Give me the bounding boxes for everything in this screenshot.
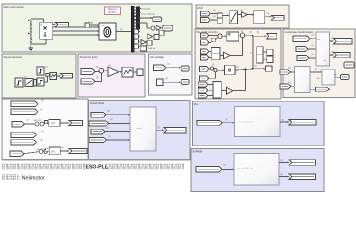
svg-text:5e-06 s.: 5e-06 s. (109, 11, 118, 14)
svg-text:dq: dq (324, 60, 326, 62)
svg-text:[1]: [1] (40, 109, 43, 111)
svg-text:SVPWM: SVPWM (193, 151, 202, 154)
svg-text:Motor and inverter: Motor and inverter (4, 6, 24, 9)
svg-text:wm(rad/s): wm(rad/s) (141, 8, 151, 11)
svg-text:<m>: <m> (101, 24, 106, 27)
svg-text:Coordinate transformation: Coordinate transformation (285, 31, 315, 34)
svg-text:wm_real theta_est: wm_real theta_est (238, 121, 255, 124)
svg-text:theta_real(rad): theta_real(rad) (141, 12, 155, 15)
svg-text:abc: abc (317, 39, 320, 41)
svg-text:[1]: [1] (267, 13, 270, 15)
svg-text:Te(N*m): Te(N*m) (148, 48, 156, 50)
svg-text:Speed reference: Speed reference (4, 56, 23, 59)
svg-text:ESO: ESO (198, 7, 203, 10)
svg-text:model: model (136, 128, 142, 130)
svg-text:wm_ref PWM_out: wm_ref PWM_out (237, 167, 253, 170)
svg-text:PI: PI (52, 122, 55, 126)
svg-text:ESO-PLL: ESO-PLL (86, 165, 109, 171)
svg-text:Actual Theta: Actual Theta (90, 102, 105, 105)
svg-text:(s): (s) (251, 53, 254, 55)
svg-text:[1]: [1] (241, 31, 244, 33)
svg-text:PLL: PLL (194, 103, 199, 106)
svg-text:Actual wm (rpm): Actual wm (rpm) (80, 56, 98, 59)
svg-text:Udc wattage: Udc wattage (150, 56, 165, 59)
svg-text:C4D 4C1: C4D 4C1 (33, 120, 42, 122)
svg-text:: Neilmotor: : Neilmotor (19, 176, 45, 182)
svg-text:[1]: [1] (315, 69, 318, 71)
svg-text:PI: PI (52, 150, 55, 154)
